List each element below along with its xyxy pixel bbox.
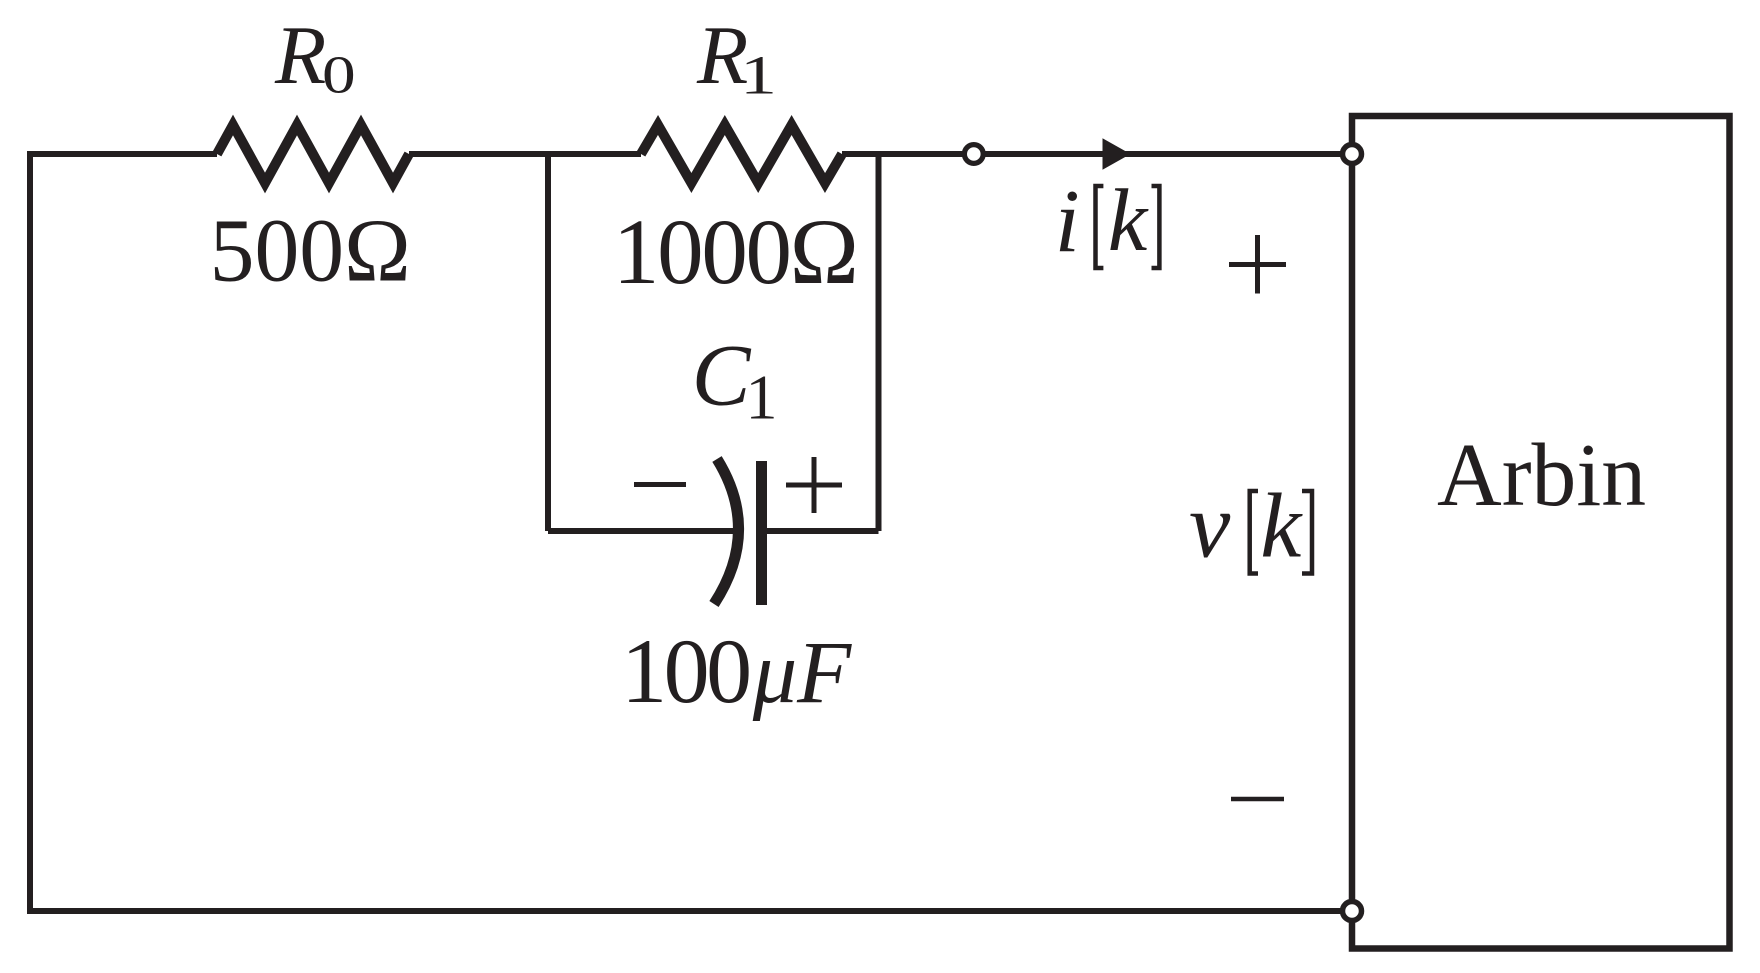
svg-text:R: R bbox=[274, 9, 326, 102]
svg-text:1000Ω: 1000Ω bbox=[613, 201, 859, 304]
svg-text:0: 0 bbox=[322, 47, 356, 105]
svg-text:k: k bbox=[1260, 476, 1303, 578]
svg-text:1: 1 bbox=[740, 45, 777, 106]
node terminal Arbin bottom bbox=[1343, 902, 1362, 921]
wire parallel-branch right vertical bbox=[876, 151, 882, 531]
label i[k]: right bracket bbox=[1152, 186, 1160, 268]
capacitor minus polarity mark bbox=[634, 482, 686, 487]
node terminal at R1 output bbox=[964, 145, 983, 164]
current arrow i[k] bbox=[1103, 138, 1131, 170]
plus polarity mark at Arbin top bbox=[1229, 235, 1286, 294]
wire branch bottom left (to capacitor) bbox=[548, 528, 737, 534]
svg-text:1: 1 bbox=[746, 361, 778, 432]
capacitor C1 straight plate bbox=[756, 461, 767, 605]
label v[k]: right bracket bbox=[1302, 491, 1312, 574]
resistor R0 zigzag bbox=[217, 125, 409, 183]
capacitor C1 curved plate bbox=[714, 459, 739, 604]
svg-text:500Ω: 500Ω bbox=[210, 202, 411, 301]
node terminal Arbin top bbox=[1343, 145, 1362, 164]
svg-text:i: i bbox=[1055, 172, 1080, 271]
label i[k]: left bracket bbox=[1096, 186, 1104, 268]
wire branch bottom right (from capacitor) bbox=[764, 528, 879, 534]
svg-text:C: C bbox=[692, 328, 752, 425]
label v[k]: left bracket bbox=[1250, 491, 1258, 574]
capacitor plus polarity mark bbox=[786, 457, 842, 513]
svg-text:k: k bbox=[1108, 172, 1149, 270]
resistor R1 zigzag bbox=[641, 125, 842, 183]
wire between R0 and R1 bbox=[409, 151, 641, 157]
wire left loop: top-left, left vertical, bottom run bbox=[30, 154, 1352, 911]
wire from R1 to Arbin node bbox=[842, 151, 1352, 157]
svg-text:Arbin: Arbin bbox=[1437, 426, 1646, 525]
wire parallel-branch left vertical bbox=[545, 151, 551, 531]
minus polarity mark at Arbin bottom bbox=[1231, 797, 1284, 802]
svg-text:v: v bbox=[1189, 475, 1231, 578]
Arbin box U1 bbox=[1352, 116, 1730, 949]
svg-text:100: 100 bbox=[621, 620, 752, 722]
svg-text:μF: μF bbox=[752, 624, 852, 722]
